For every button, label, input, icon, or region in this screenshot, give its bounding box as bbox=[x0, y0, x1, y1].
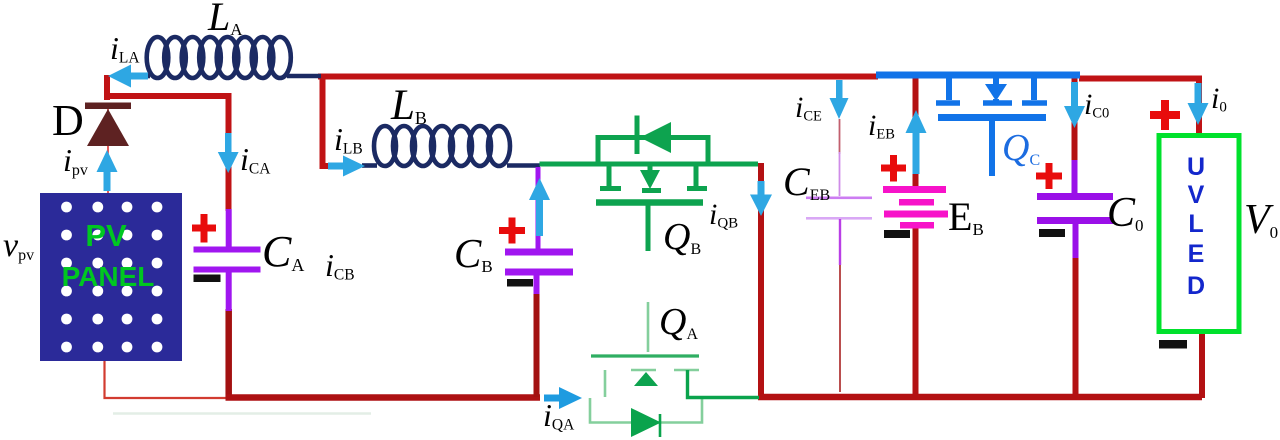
arrow iLB bbox=[328, 156, 365, 177]
wire UVLED bottom lead bbox=[1199, 332, 1205, 398]
wire C0 vertical top bbox=[1072, 78, 1078, 163]
minus UVLED bbox=[1159, 340, 1187, 349]
arrow iCB up bbox=[529, 178, 550, 236]
svg-text:iCA: iCA bbox=[240, 141, 271, 178]
plus CB bbox=[499, 218, 525, 244]
wire top rail right (red) bbox=[1079, 79, 1199, 134]
svg-text:C0: C0 bbox=[1107, 190, 1144, 236]
capacitor CEB thin bbox=[806, 119, 872, 392]
svg-text:iCE: iCE bbox=[795, 91, 822, 125]
inductor LB bbox=[362, 126, 540, 166]
plus EB bbox=[881, 155, 906, 182]
svg-text:iCB: iCB bbox=[325, 247, 355, 284]
svg-text:L: L bbox=[1188, 210, 1203, 238]
arrow i0 bbox=[1188, 83, 1209, 125]
svg-text:vpv: vpv bbox=[3, 227, 34, 264]
transistor QA bbox=[590, 302, 702, 423]
transistor QC arrow bbox=[985, 84, 1007, 101]
plus CA bbox=[192, 214, 216, 243]
svg-text:PV: PV bbox=[85, 218, 127, 253]
transistor QA body diode bbox=[631, 408, 661, 437]
wire C0 purple top lead bbox=[1072, 160, 1078, 193]
wire LB feed vertical bbox=[323, 76, 341, 166]
wire CA branch bbox=[105, 75, 229, 211]
svg-text:ipv: ipv bbox=[63, 142, 88, 179]
svg-text:iEB: iEB bbox=[868, 109, 895, 143]
capacitor CA bbox=[194, 209, 261, 311]
svg-text:LA: LA bbox=[207, 0, 243, 39]
svg-text:D: D bbox=[52, 96, 84, 145]
node blue rail QC bbox=[876, 72, 1080, 79]
transistor QB arrow bbox=[640, 170, 660, 189]
transistor QC bbox=[936, 78, 1047, 176]
svg-text:QA: QA bbox=[659, 301, 698, 343]
arrow iEB bbox=[906, 110, 927, 174]
svg-text:i0: i0 bbox=[1211, 82, 1227, 116]
wire CB bottom lead bbox=[534, 292, 540, 397]
wire C0 vertical bottom bbox=[1073, 258, 1079, 395]
svg-text:QB: QB bbox=[663, 216, 701, 258]
svg-text:CB: CB bbox=[454, 230, 493, 276]
transistor QB bbox=[540, 116, 759, 252]
arrow ipv bbox=[97, 150, 118, 191]
svg-text:E: E bbox=[1188, 240, 1205, 268]
svg-text:QC: QC bbox=[1002, 127, 1040, 169]
minus CB bbox=[507, 279, 533, 287]
wire bottom rail left bbox=[226, 394, 541, 401]
transistor QB body diode triangle bbox=[640, 122, 671, 153]
diode D bbox=[85, 103, 131, 147]
arrow iLA bbox=[108, 65, 148, 88]
wire EB vertical top bbox=[913, 74, 919, 187]
arrow iC0 bbox=[1064, 82, 1085, 128]
wire top rail left (red) bbox=[318, 74, 878, 80]
capacitor CB bbox=[505, 167, 573, 294]
wire QB right vertical bbox=[758, 163, 764, 397]
wire faint artifact line bbox=[113, 412, 371, 415]
arrow iCE bbox=[830, 80, 849, 119]
wire QA right green bbox=[688, 370, 760, 398]
battery EB bbox=[883, 186, 948, 229]
plus UVLED bbox=[1150, 100, 1180, 130]
wire PV bottom thin bbox=[105, 361, 228, 398]
minus C0 bbox=[1039, 229, 1065, 237]
wire diode center thin bbox=[107, 105, 109, 195]
svg-text:LB: LB bbox=[390, 82, 427, 129]
svg-text:U: U bbox=[1187, 153, 1205, 181]
transistor QA arrow bbox=[634, 372, 658, 386]
svg-text:D: D bbox=[1187, 272, 1205, 300]
wire C0 purple bottom lead bbox=[1073, 224, 1079, 260]
svg-text:CA: CA bbox=[262, 227, 304, 276]
wire bottom rail right bbox=[758, 394, 1202, 401]
arrow iQB bbox=[750, 181, 772, 216]
svg-text:iLB: iLB bbox=[334, 121, 363, 158]
wire CA bottom lead bbox=[225, 309, 232, 398]
UVLED box bbox=[1159, 136, 1239, 332]
svg-text:CEB: CEB bbox=[783, 159, 830, 204]
plus C0 bbox=[1036, 163, 1062, 189]
arrow iQA bbox=[544, 387, 582, 409]
svg-text:iQB: iQB bbox=[709, 198, 738, 232]
transistor QA gate bar bbox=[591, 354, 699, 357]
svg-text:EB: EB bbox=[948, 194, 984, 239]
minus CA bbox=[194, 275, 221, 283]
capacitor C0 bbox=[1037, 193, 1113, 224]
svg-text:PANEL: PANEL bbox=[62, 261, 155, 292]
arrow iCA bbox=[218, 133, 239, 173]
svg-text:V0: V0 bbox=[1244, 197, 1278, 243]
PV panel bbox=[40, 193, 182, 361]
svg-text:iC0: iC0 bbox=[1084, 88, 1109, 122]
svg-text:iLA: iLA bbox=[110, 30, 140, 67]
svg-text:V: V bbox=[1188, 181, 1205, 209]
wire EB vertical bottom bbox=[913, 228, 919, 395]
minus EB bbox=[884, 230, 910, 238]
inductor LA bbox=[136, 37, 321, 78]
